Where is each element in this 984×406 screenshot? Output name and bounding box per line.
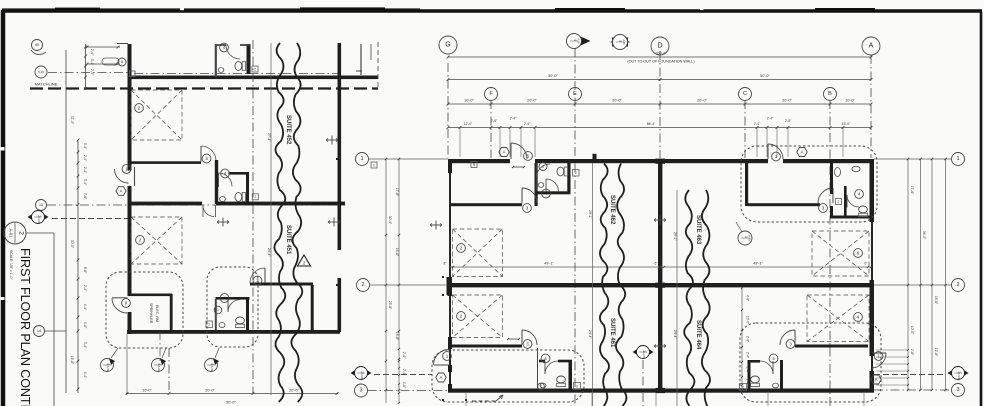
svg-text:20'-0": 20'-0" <box>527 99 537 103</box>
svg-text:SUITE 451: SUITE 451 <box>285 225 291 255</box>
svg-text:2'-4": 2'-4" <box>402 369 406 376</box>
svg-text:G: G <box>445 42 450 49</box>
svg-text:90'-0": 90'-0" <box>226 401 236 405</box>
svg-text:2: 2 <box>838 200 840 204</box>
svg-text:29'-1": 29'-1" <box>588 210 592 219</box>
svg-text:2: 2 <box>576 384 578 388</box>
svg-text:2'-4": 2'-4" <box>524 122 531 126</box>
svg-text:17'-8": 17'-8" <box>910 186 914 195</box>
svg-text:50'-0": 50'-0" <box>760 74 770 78</box>
svg-text:2'-8": 2'-8" <box>491 119 498 123</box>
svg-text:2: 2 <box>18 231 25 235</box>
svg-text:88'-4": 88'-4" <box>647 122 656 126</box>
svg-text:14: 14 <box>37 329 41 333</box>
svg-text:B: B <box>828 91 832 97</box>
svg-text:4'-4": 4'-4" <box>83 372 87 379</box>
svg-text:A: A <box>503 150 506 155</box>
svg-text:1: 1 <box>956 156 959 162</box>
svg-text:A: A <box>801 150 804 155</box>
svg-text:31'-0": 31'-0" <box>70 116 74 125</box>
svg-text:SUITE 452: SUITE 452 <box>285 115 291 145</box>
svg-text:30'-0": 30'-0" <box>388 216 392 225</box>
svg-text:SUITE 461: SUITE 461 <box>609 318 615 348</box>
svg-text:2'-4": 2'-4" <box>746 352 750 358</box>
svg-text:7'-6": 7'-6" <box>83 193 87 200</box>
svg-text:100'-0": 100'-0" <box>655 52 667 56</box>
svg-text:2'-4": 2'-4" <box>746 367 750 373</box>
svg-text:1: 1 <box>542 165 544 169</box>
svg-text:12'-0": 12'-0" <box>464 122 473 126</box>
svg-text:A-508: A-508 <box>360 373 364 380</box>
svg-text:A: A <box>869 43 874 50</box>
svg-text:2'-4": 2'-4" <box>754 122 761 126</box>
svg-text:1: 1 <box>540 385 542 389</box>
svg-text:29'-1": 29'-1" <box>673 232 677 241</box>
svg-text:2'-4": 2'-4" <box>767 117 774 121</box>
svg-text:2'-4": 2'-4" <box>510 117 517 121</box>
svg-text:10'-0": 10'-0" <box>845 99 855 103</box>
svg-text:10'-0": 10'-0" <box>746 316 750 324</box>
svg-text:A-508: A-508 <box>957 373 961 380</box>
svg-text:1: 1 <box>360 156 363 162</box>
svg-text:C: C <box>743 91 747 97</box>
svg-text:16'-8": 16'-8" <box>934 296 938 305</box>
svg-text:SPRINKLER: SPRINKLER <box>149 303 153 324</box>
svg-text:2: 2 <box>254 67 256 71</box>
svg-text:4'-4": 4'-4" <box>83 304 87 311</box>
svg-text:16'-8": 16'-8" <box>395 248 399 257</box>
svg-text:20'-0": 20'-0" <box>205 389 215 393</box>
svg-text:50'-0": 50'-0" <box>548 74 558 78</box>
svg-text:49'-1": 49'-1" <box>544 262 554 266</box>
svg-text:2'-4": 2'-4" <box>402 352 406 359</box>
svg-text:2'-4": 2'-4" <box>83 155 87 162</box>
svg-text:(OUT TO OUT OF FOUNDATION WALL: (OUT TO OUT OF FOUNDATION WALL) <box>627 60 694 64</box>
svg-text:1: 1 <box>217 308 219 312</box>
svg-text:2'-4": 2'-4" <box>83 167 87 174</box>
svg-text:2: 2 <box>956 282 959 288</box>
svg-text:A-05: A-05 <box>622 39 625 45</box>
svg-text:30'-0": 30'-0" <box>70 240 74 249</box>
svg-text:SCALE: 1/8" = 1'-0": SCALE: 1/8" = 1'-0" <box>9 250 13 280</box>
svg-text:2'-4": 2'-4" <box>90 49 94 56</box>
svg-text:5.15: 5.15 <box>38 70 44 74</box>
svg-text:24'-4": 24'-4" <box>588 330 592 339</box>
svg-text:3'-4": 3'-4" <box>83 143 87 150</box>
svg-text:2'-8": 2'-8" <box>910 349 914 356</box>
svg-text:2: 2 <box>361 282 364 288</box>
svg-text:36'-0": 36'-0" <box>922 231 926 240</box>
svg-text:A-01: A-01 <box>9 229 14 239</box>
svg-text:A: A <box>440 375 443 380</box>
svg-text:27'-4": 27'-4" <box>267 133 271 142</box>
svg-text:FIRST FLOOR PLAN CONTINUED: FIRST FLOOR PLAN CONTINUED <box>18 248 32 406</box>
svg-text:SUITE 464: SUITE 464 <box>695 320 701 350</box>
svg-text:20'-0": 20'-0" <box>612 99 622 103</box>
svg-text:A-02: A-02 <box>747 235 751 241</box>
svg-text:20'-0": 20'-0" <box>782 99 792 103</box>
svg-text:3: 3 <box>359 388 362 394</box>
svg-text:2: 2 <box>575 171 577 175</box>
svg-text:A-507: A-507 <box>642 352 646 359</box>
svg-text:24'-4": 24'-4" <box>267 248 271 257</box>
svg-text:MATCHLINE: MATCHLINE <box>35 82 58 87</box>
svg-text:4'-8": 4'-8" <box>83 322 87 329</box>
svg-text:3'-4": 3'-4" <box>90 59 94 66</box>
svg-text:3'-4": 3'-4" <box>83 179 87 186</box>
svg-text:10'-0": 10'-0" <box>464 99 474 103</box>
svg-text:13: 13 <box>39 203 43 207</box>
svg-text:49'-1": 49'-1" <box>753 262 763 266</box>
svg-text:3'-4": 3'-4" <box>83 342 87 349</box>
svg-text:10'-0": 10'-0" <box>910 326 914 335</box>
svg-text:A-05: A-05 <box>577 38 580 44</box>
svg-text:A-508: A-508 <box>37 217 41 224</box>
svg-text:2'-8": 2'-8" <box>746 336 750 342</box>
svg-text:4'-8": 4'-8" <box>746 295 750 301</box>
svg-text:16'-8": 16'-8" <box>395 332 399 341</box>
svg-text:SUITE 462: SUITE 462 <box>609 195 615 225</box>
svg-text:17'-8": 17'-8" <box>395 188 399 197</box>
svg-text:10'-0": 10'-0" <box>142 389 152 393</box>
svg-text:A-03: A-03 <box>106 366 110 372</box>
svg-text:A-03: A-03 <box>157 366 161 372</box>
svg-text:3: 3 <box>956 387 959 393</box>
svg-text:16'-8": 16'-8" <box>70 356 74 365</box>
svg-text:SUITE 463: SUITE 463 <box>695 215 701 245</box>
svg-text:20'-0": 20'-0" <box>697 99 707 103</box>
svg-text:A-03: A-03 <box>210 366 214 372</box>
svg-text:12'-8": 12'-8" <box>934 348 938 357</box>
svg-text:15'-0": 15'-0" <box>842 122 851 126</box>
svg-text:90: 90 <box>35 43 39 47</box>
svg-text:24'-4": 24'-4" <box>673 330 677 339</box>
svg-text:25'-8": 25'-8" <box>388 301 392 310</box>
svg-text:4'-8": 4'-8" <box>402 382 406 389</box>
svg-text:A: A <box>120 189 123 194</box>
svg-text:2'-4": 2'-4" <box>746 379 750 385</box>
svg-text:ELEC. RM: ELEC. RM <box>155 305 159 322</box>
svg-text:D: D <box>657 43 662 50</box>
svg-text:2'-4": 2'-4" <box>83 285 87 292</box>
svg-text:2: 2 <box>254 195 256 199</box>
svg-text:2: 2 <box>208 323 210 327</box>
svg-text:20'-0": 20'-0" <box>289 389 299 393</box>
svg-text:2'-8": 2'-8" <box>785 119 792 123</box>
svg-text:1: 1 <box>373 163 375 167</box>
svg-text:8'-8": 8'-8" <box>83 267 87 274</box>
svg-text:2'-4": 2'-4" <box>90 69 94 76</box>
